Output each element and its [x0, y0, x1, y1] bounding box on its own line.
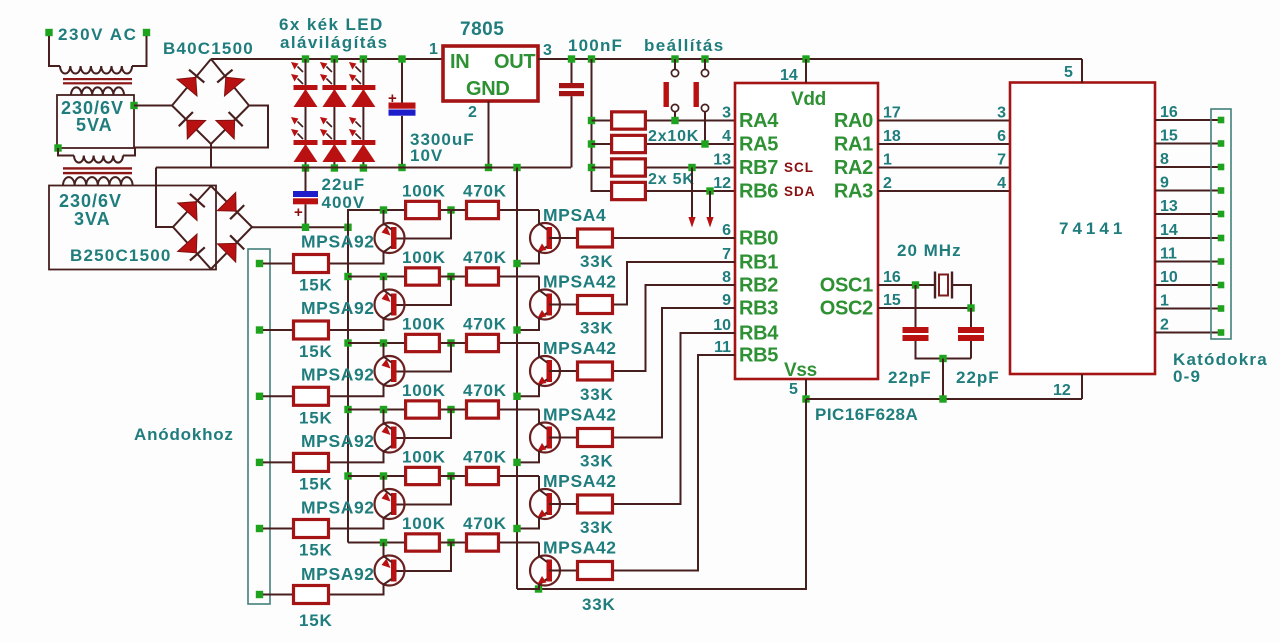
- node TR1 secondary left terminal: [54, 144, 61, 151]
- wire 8V rail: [211, 58, 443, 60]
- wire 74141 output pin 13: [1155, 213, 1221, 215]
- resistor 33K row 6: [578, 562, 613, 580]
- wire OSC2 pin15: [878, 307, 971, 309]
- svg-text:RA2: RA2: [834, 157, 873, 179]
- node ground rail to emitter rail: [513, 164, 520, 171]
- pin cathode 1: [1218, 117, 1225, 124]
- svg-text:11: 11: [714, 339, 731, 356]
- wire crystal right to OSC2: [952, 285, 971, 308]
- wire anode pin to 15K row 4: [263, 461, 292, 463]
- svg-text:MPSA42: MPSA42: [543, 538, 617, 558]
- node 100K/470K junction row 3: [447, 339, 454, 346]
- svg-text:3: 3: [543, 42, 552, 59]
- node LED string 1 bottom: [302, 164, 309, 171]
- wire 3300uF top: [401, 59, 403, 103]
- wire 100K to 470K row 6: [441, 542, 465, 544]
- svg-text:100K: 100K: [402, 381, 446, 400]
- resistor 470K row 2: [467, 268, 499, 285]
- diode B2 lower-right: [217, 243, 236, 262]
- node bank bus row 3: [588, 164, 595, 171]
- wire RB6 line pin12: [647, 190, 735, 192]
- resistor 33K row 5: [578, 495, 613, 513]
- node MPSA92 emitter row 2: [380, 273, 387, 280]
- wire button SW1 top: [674, 59, 676, 70]
- node 3300uF bottom: [398, 164, 405, 171]
- svg-text:15: 15: [1160, 128, 1178, 145]
- pin anode 4: [256, 459, 263, 466]
- transistor MPSA92 row 1: [330, 210, 405, 264]
- transformer TR2 230V winding: [63, 177, 133, 185]
- svg-text:5: 5: [789, 381, 798, 398]
- wire 33K to PIC RB2 row 3: [614, 285, 735, 371]
- svg-text:2x 5K: 2x 5K: [648, 171, 695, 188]
- svg-text:15K: 15K: [299, 541, 333, 560]
- svg-text:20 MHz: 20 MHz: [897, 241, 962, 260]
- transistor MPSA42 row 5: [517, 476, 560, 529]
- wire 100nF top: [571, 59, 573, 83]
- svg-text:7: 7: [722, 246, 731, 263]
- connector anodes outline: [248, 249, 270, 604]
- wire 22pF junction to Vss rail: [942, 359, 944, 400]
- svg-text:2x10K: 2x10K: [648, 128, 699, 145]
- LED D3 blue: [320, 62, 347, 107]
- svg-text:33K: 33K: [580, 252, 614, 271]
- wire TR1 secondary to bridge B1 AC1: [134, 105, 172, 107]
- wire 74141 output pin 2: [1155, 332, 1221, 334]
- wire 470K to MPSA42 collector row 2: [500, 276, 539, 278]
- svg-text:RA3: RA3: [834, 181, 873, 203]
- svg-text:9: 9: [1160, 175, 1169, 192]
- wire MPSA92 base row 3: [395, 343, 451, 372]
- svg-text:6x kék LED: 6x kék LED: [279, 15, 384, 34]
- diode B1 upper-left: [177, 77, 197, 96]
- svg-text:3: 3: [722, 105, 731, 122]
- wire anode pin to 15K row 2: [263, 329, 292, 331]
- svg-text:RA4: RA4: [739, 110, 779, 132]
- wire bridge B1 + output to 8V rail: [210, 58, 212, 60]
- svg-text:230V AC: 230V AC: [58, 25, 138, 44]
- svg-text:MPSA42: MPSA42: [543, 405, 617, 425]
- node Vss rail left: [802, 395, 809, 402]
- svg-text:RB0: RB0: [739, 228, 778, 250]
- svg-text:RB5: RB5: [739, 345, 778, 367]
- svg-text:5VA: 5VA: [76, 115, 113, 135]
- transistor MPSA92 row 3: [330, 343, 405, 396]
- pin cathode 8: [1218, 282, 1225, 289]
- IC U1 PIC16F628A box: [735, 83, 878, 379]
- svg-text:14: 14: [780, 67, 798, 84]
- svg-text:OSC2: OSC2: [820, 298, 873, 320]
- pin cathode 7: [1218, 258, 1225, 265]
- wire HV rail to row 3: [348, 342, 404, 344]
- svg-text:GND: GND: [466, 78, 510, 100]
- transistor MPSA92 row 6: [330, 543, 405, 595]
- svg-text:MPSA92: MPSA92: [301, 232, 375, 252]
- resistor 100K row 5: [406, 467, 440, 484]
- wire 74141 pin 5 Vcc: [1081, 59, 1083, 83]
- svg-text:5: 5: [1064, 64, 1073, 81]
- wire anode pin to 15K row 1: [263, 263, 292, 265]
- svg-text:B250C1500: B250C1500: [70, 246, 172, 265]
- transformer TR2 body box 230/6V 3VA: [49, 186, 216, 270]
- svg-text:15K: 15K: [299, 611, 333, 630]
- svg-text:16: 16: [1160, 104, 1178, 121]
- node OSC1 to C3: [912, 281, 919, 288]
- transistor MPSA42 row 4: [517, 410, 560, 463]
- capacitor 100nF: [559, 83, 584, 96]
- wire RA5 line pin4: [647, 143, 735, 145]
- ground rail: [156, 167, 571, 169]
- node 100K/470K junction row 2: [447, 273, 454, 280]
- svg-text:470K: 470K: [463, 448, 507, 467]
- node MPSA42 emitter at rail row 4: [513, 459, 520, 466]
- wire 100K to 470K row 5: [441, 475, 465, 477]
- pin cathode 4: [1218, 187, 1225, 194]
- wire 470K to MPSA42 collector row 1: [500, 209, 539, 211]
- svg-text:7805: 7805: [460, 19, 504, 40]
- resistor 470K row 4: [467, 401, 499, 418]
- svg-text:470K: 470K: [463, 514, 507, 533]
- transistor MPSA42 row 3: [517, 343, 560, 396]
- svg-text:22uF: 22uF: [322, 175, 366, 194]
- wire MPSA42 base row 6: [549, 570, 576, 572]
- svg-text:Anódokhoz: Anódokhoz: [134, 425, 234, 444]
- transformer TR1 primary winding: [60, 66, 132, 73]
- svg-text:4: 4: [997, 175, 1006, 192]
- wire RA4 line pin3: [647, 120, 735, 122]
- svg-text:B40C1500: B40C1500: [163, 39, 254, 58]
- wire OSC1 pin16: [878, 284, 935, 286]
- node 100K/470K junction row 1: [447, 206, 454, 213]
- node SCL tap on RB7: [688, 164, 695, 171]
- svg-text:10V: 10V: [410, 146, 443, 165]
- wire LED string 1: [305, 59, 307, 168]
- diode B2 lower-left: [178, 234, 197, 253]
- svg-text:33K: 33K: [580, 385, 614, 404]
- node MPSA92 emitter row 3: [380, 339, 387, 346]
- node HV rail row 2: [344, 273, 351, 280]
- pin anode 6: [256, 591, 263, 598]
- wire RA3 to 74141: [878, 190, 1010, 192]
- resistor 2x10K resistor b: [612, 135, 646, 152]
- wire 3300uF bottom: [401, 116, 403, 168]
- node MPSA42 emitter at rail row 1: [513, 260, 520, 267]
- LED D2 blue: [291, 117, 318, 162]
- transformer TR2 core: [63, 167, 132, 174]
- node MPSA42 emitter at rail row 2: [513, 326, 520, 333]
- resistor 33K row 3: [578, 362, 613, 380]
- svg-text:9: 9: [722, 292, 731, 309]
- wire OSC2 down to C4: [970, 308, 972, 327]
- node 100K/470K junction row 6: [447, 539, 454, 546]
- svg-text:33K: 33K: [582, 595, 616, 614]
- pin cathode 6: [1218, 235, 1225, 242]
- node SDA tap on RB6: [706, 187, 713, 194]
- svg-text:Vdd: Vdd: [791, 89, 826, 110]
- svg-text:MPSA92: MPSA92: [301, 498, 375, 518]
- svg-text:MPSA92: MPSA92: [301, 431, 375, 451]
- svg-text:1: 1: [883, 152, 892, 169]
- svg-text:RB2: RB2: [739, 275, 778, 297]
- pin cathode 2: [1218, 140, 1225, 147]
- node TR1 secondary right terminal: [130, 102, 137, 109]
- svg-text:beállítás: beállítás: [644, 36, 725, 55]
- wire 33K to PIC RB5 row 6: [614, 355, 735, 571]
- svg-text:RA1: RA1: [834, 134, 873, 156]
- svg-text:8: 8: [1160, 151, 1169, 168]
- svg-text:22pF: 22pF: [888, 368, 932, 387]
- node MPSA92 emitter row 5: [380, 472, 387, 479]
- voltage regulator 7805 box: [443, 46, 538, 101]
- wire 22uF bottom to HV node: [305, 204, 307, 227]
- wire 33K to PIC RB1 row 2: [614, 262, 735, 305]
- wire button SW2 bottom: [704, 112, 706, 144]
- svg-text:100nF: 100nF: [568, 36, 623, 55]
- node HV rail row 5: [344, 472, 351, 479]
- wire RB7 line pin13: [647, 167, 735, 169]
- terminal 230V AC left: [45, 29, 52, 36]
- svg-text:18: 18: [883, 128, 901, 145]
- svg-text:SCL: SCL: [784, 160, 814, 175]
- resistor 33K row 1: [578, 229, 613, 247]
- wire 74141 output pin 1: [1155, 308, 1221, 310]
- wire Vss ground rail: [806, 398, 1082, 400]
- svg-text:6: 6: [997, 128, 1006, 145]
- resistor 15K row 1: [294, 255, 329, 273]
- wire button SW1 bottom: [674, 112, 676, 121]
- svg-text:MPSA42: MPSA42: [543, 471, 617, 491]
- transformer TR2 6V winding: [74, 156, 123, 163]
- wire 74141 output pin 9: [1155, 190, 1221, 192]
- svg-text:13: 13: [713, 152, 731, 169]
- transformer TR1 core: [63, 78, 132, 84]
- resistor 2x 5K resistor b: [612, 182, 646, 199]
- svg-text:OUT: OUT: [494, 51, 535, 73]
- pin anode 2: [256, 326, 263, 333]
- svg-text:RA5: RA5: [739, 134, 778, 156]
- svg-text:+: +: [388, 90, 397, 107]
- pin anode 1: [256, 260, 263, 267]
- wire HV rail to row 2: [348, 276, 404, 278]
- connector cathodes outline: [1211, 109, 1231, 339]
- svg-text:470K: 470K: [463, 315, 507, 334]
- bridge rectifier B250C1500 outline: [173, 186, 252, 269]
- resistor 15K row 5: [294, 520, 329, 538]
- svg-text:6: 6: [722, 222, 731, 239]
- transistor MPSA42 row 1: [517, 210, 560, 264]
- svg-text:RB1: RB1: [739, 252, 778, 274]
- node MPSA42 emitter at rail row 5: [513, 525, 520, 532]
- wire 470K to MPSA42 collector row 6: [500, 542, 539, 544]
- svg-text:13: 13: [1160, 198, 1178, 215]
- wire MPSA42 base row 4: [549, 437, 576, 439]
- wire 33K to PIC RB0 row 1: [614, 237, 735, 239]
- resistor 15K row 6: [294, 586, 329, 604]
- svg-text:15K: 15K: [299, 276, 333, 295]
- svg-text:100K: 100K: [402, 448, 446, 467]
- node LED string 1 top: [302, 55, 309, 62]
- svg-text:470K: 470K: [463, 182, 507, 201]
- resistor 100K row 1: [406, 201, 440, 218]
- svg-text:IN: IN: [450, 51, 469, 73]
- wire button SW2 top: [704, 59, 706, 70]
- wire TR2 6V winding right end: [123, 148, 135, 156]
- wire RA2 to 74141: [878, 167, 1010, 169]
- resistor 100K row 3: [406, 334, 440, 351]
- svg-text:14: 14: [1160, 222, 1178, 239]
- svg-text:12: 12: [713, 175, 731, 192]
- diode B2 upper-left: [178, 202, 197, 221]
- resistor 100K row 4: [406, 401, 440, 418]
- diode B1 upper-right: [225, 77, 245, 96]
- wire HV rail corner to row 6: [348, 542, 404, 544]
- node Vss rail at 22pF: [939, 395, 946, 402]
- node bank bus row 2: [588, 140, 595, 147]
- wire 74141 output pin 10: [1155, 284, 1221, 286]
- svg-text:15K: 15K: [299, 474, 333, 493]
- wire bridge B2 + output to HV node: [252, 226, 348, 228]
- pin cathode 9: [1218, 305, 1225, 312]
- push button SW1: [664, 69, 679, 111]
- resistor 2x 5K resistor a: [612, 159, 646, 176]
- transformer TR1 secondary winding: [71, 87, 124, 95]
- svg-text:MPSA92: MPSA92: [301, 365, 375, 385]
- wire RA1 to 74141: [878, 143, 1010, 145]
- capacitor 3300uF 10V: [389, 103, 416, 116]
- svg-text:PIC16F628A: PIC16F628A: [815, 405, 918, 424]
- wire 230V AC left to primary: [49, 36, 60, 66]
- wire RA0 to 74141: [878, 120, 1010, 122]
- svg-text:3VA: 3VA: [74, 209, 111, 229]
- transformer TR1 body box 230/6V 5VA: [57, 95, 134, 148]
- svg-text:33K: 33K: [580, 319, 614, 338]
- svg-text:Vss: Vss: [784, 360, 817, 381]
- node 100K/470K junction row 5: [447, 472, 454, 479]
- svg-text:MPSA92: MPSA92: [301, 298, 375, 318]
- svg-text:MPSA92: MPSA92: [301, 564, 375, 584]
- svg-text:alávilágítás: alávilágítás: [280, 33, 388, 52]
- svg-text:33K: 33K: [580, 452, 614, 471]
- resistor 2x10K resistor a: [612, 112, 646, 129]
- resistor 15K row 3: [294, 387, 329, 405]
- svg-text:3: 3: [997, 105, 1006, 122]
- resistor 470K row 6: [467, 534, 499, 551]
- wire 470K to MPSA42 collector row 4: [500, 409, 539, 411]
- svg-text:1: 1: [429, 41, 438, 58]
- bridge rectifier B40C1500 outline: [172, 59, 249, 144]
- resistor 470K row 3: [467, 334, 499, 351]
- wire 74141 output pin 15: [1155, 143, 1221, 145]
- diode B1 lower-left: [187, 120, 206, 139]
- wire ground return bottom: [517, 399, 806, 589]
- svg-text:0-9: 0-9: [1173, 367, 1201, 386]
- svg-text:RB4: RB4: [739, 323, 779, 345]
- svg-text:+: +: [294, 204, 303, 221]
- pin anode 3: [256, 393, 263, 400]
- wire MPSA92 base row 4: [395, 410, 451, 439]
- push button SW2: [694, 69, 709, 111]
- wire MPSA92 base row 2: [395, 277, 451, 306]
- node button SW2 junction: [701, 140, 708, 147]
- node OSC2 junction: [967, 304, 974, 311]
- node 3300uF top: [398, 55, 405, 62]
- wire anode pin to 15K row 6: [263, 594, 292, 596]
- wire Vdd pin 14: [805, 59, 807, 83]
- IC U2 74141 box: [1010, 83, 1155, 375]
- node MPSA92 emitter row 6: [380, 539, 387, 546]
- svg-text:100K: 100K: [402, 182, 446, 201]
- LED D4 blue: [320, 117, 347, 162]
- node 100nF top: [568, 55, 575, 62]
- svg-text:15K: 15K: [299, 342, 333, 361]
- wire 100K to 470K row 1: [441, 209, 465, 211]
- wire MPSA42 base row 2: [549, 304, 576, 306]
- wire 470K to MPSA42 collector row 5: [500, 475, 539, 477]
- HV rail vertical: [347, 210, 349, 543]
- node HV rail row 3: [344, 339, 351, 346]
- svg-text:2: 2: [1160, 317, 1169, 334]
- wire MPSA42 base row 1: [549, 237, 576, 239]
- wire HV rail to row 4: [348, 409, 404, 411]
- transistor MPSA92 row 4: [330, 410, 405, 463]
- wire bridge B1 - output to ground rail: [210, 144, 212, 168]
- pin cathode 10: [1218, 329, 1225, 336]
- wire 74141 pin 12 ground: [1081, 374, 1083, 399]
- svg-text:MPSA4: MPSA4: [543, 205, 606, 225]
- node 7805 GND at ground rail: [485, 164, 492, 171]
- wire C4 bottom: [970, 341, 972, 359]
- svg-text:SDA: SDA: [784, 184, 816, 199]
- diode B1 lower-right: [216, 120, 235, 139]
- wire 74141 output pin 11: [1155, 261, 1221, 263]
- wire 100nF bottom: [571, 96, 573, 167]
- resistor 15K row 4: [294, 453, 329, 471]
- node HV at 22uF: [302, 224, 309, 231]
- wire MPSA92 base row 1: [395, 210, 451, 239]
- svg-text:10: 10: [713, 317, 731, 334]
- node LED string 2 bottom: [331, 164, 338, 171]
- wire bus to 2x10K resistor b: [592, 143, 611, 145]
- LED D1 blue: [291, 62, 318, 107]
- crystal X1 20MHz: [935, 272, 952, 299]
- node LED string 3 top: [360, 55, 367, 62]
- wire 33K to PIC RB4 row 5: [614, 333, 735, 504]
- LED D6 blue: [349, 117, 376, 162]
- wire resistor bank bus: [592, 59, 611, 191]
- wire SCL off-page arrow: [691, 168, 693, 218]
- resistor 33K row 2: [578, 296, 613, 314]
- svg-text:17: 17: [883, 105, 901, 122]
- node row6 emitter junction: [535, 585, 542, 592]
- pin cathode 3: [1218, 164, 1225, 171]
- wire anode pin to 15K row 3: [263, 395, 292, 397]
- wire MPSA92 base row 5: [395, 476, 451, 505]
- svg-text:MPSA42: MPSA42: [543, 272, 617, 292]
- wire Vss pin 5: [805, 379, 807, 399]
- diode B2 upper-right: [217, 192, 236, 211]
- wire LED string 2: [333, 59, 335, 168]
- node 5V rail button SW1: [671, 55, 678, 62]
- node bank bus row 1: [588, 117, 595, 124]
- wire HV rail corner to row 1: [348, 210, 404, 227]
- svg-text:12: 12: [1053, 382, 1071, 399]
- svg-text:33K: 33K: [580, 518, 614, 537]
- node MPSA92 emitter row 1: [380, 206, 387, 213]
- svg-text:RB7: RB7: [739, 157, 778, 179]
- node MPSA92 emitter row 4: [380, 406, 387, 413]
- resistor 15K row 2: [294, 321, 329, 339]
- wire bus to 2x10K resistor a: [592, 120, 611, 122]
